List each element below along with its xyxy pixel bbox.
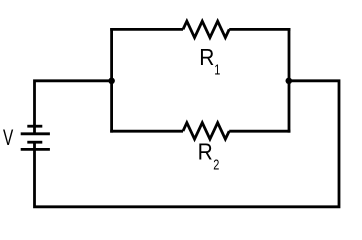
svg-text:R: R [198, 138, 213, 164]
svg-text:R: R [199, 44, 214, 70]
resistor R1 zigzag [183, 21, 229, 37]
label V (battery value) [3, 126, 14, 150]
node B junction dot [286, 78, 293, 85]
wire: parallel section right vertical (node B riser) [288, 28, 291, 133]
wire: top branch left lead [110, 28, 183, 31]
label R2 [198, 138, 213, 164]
wire: parallel section left vertical (node A riser) [110, 28, 113, 133]
battery V: short plate 1 [27, 125, 42, 128]
wire: bottom branch right lead [229, 130, 290, 133]
wire: bottom branch left lead [110, 130, 183, 133]
label R1 [199, 44, 214, 70]
battery V: long plate 1 [21, 132, 50, 135]
wire: top branch right lead [229, 28, 290, 31]
resistor R2 zigzag [183, 123, 229, 139]
wire: battery positive terminal up and right to node A [35, 81, 114, 134]
svg-text:V: V [3, 126, 14, 150]
label R1 subscript 1 [214, 61, 220, 78]
svg-text:2: 2 [213, 156, 219, 173]
label R2 subscript 2 [213, 156, 219, 173]
battery V: short plate 2 [27, 141, 42, 144]
wire: battery negative terminal down, bottom return, right rail up to node B [35, 81, 340, 207]
node A junction dot [108, 78, 115, 85]
svg-text:1: 1 [214, 61, 220, 78]
battery V: long plate 2 [21, 148, 50, 151]
